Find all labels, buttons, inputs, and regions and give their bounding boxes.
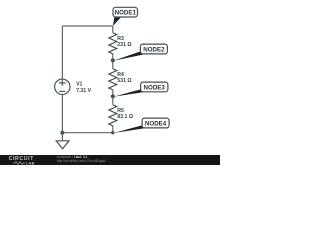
- svg-text:R5: R5: [117, 108, 124, 114]
- bar text line 1: [57, 156, 88, 159]
- svg-text:NODE1: NODE1: [115, 10, 137, 17]
- svg-text:531 Ω: 531 Ω: [117, 78, 131, 84]
- wire top horizontal: [62, 25, 112, 27]
- junction dot NODE4 corner: [111, 131, 114, 134]
- wire left upper: [61, 26, 63, 79]
- voltage source V1: [55, 79, 92, 94]
- node NODE2: [113, 44, 167, 61]
- svg-text:83.1 Ω: 83.1 Ω: [117, 114, 133, 120]
- wire bottom horizontal: [62, 132, 112, 134]
- svg-text:R4: R4: [117, 72, 124, 78]
- svg-text:NODE2: NODE2: [143, 47, 165, 54]
- CircuitLab logo LAB line: [13, 161, 37, 165]
- wire right column segments: [112, 26, 114, 133]
- svg-text:7.31 V: 7.31 V: [76, 88, 92, 94]
- junction dot NODE2: [111, 58, 115, 62]
- svg-text:LAB: LAB: [26, 162, 35, 166]
- node NODE1: [113, 7, 138, 26]
- svg-text:R3: R3: [117, 36, 124, 42]
- junction dot bottom-left: [60, 131, 64, 135]
- resistor R3: [109, 33, 132, 54]
- svg-text:NODE3: NODE3: [144, 85, 166, 92]
- svg-text:V1: V1: [76, 82, 82, 88]
- resistor R5: [109, 105, 133, 126]
- CircuitLab logo CIRCUIT: [9, 157, 34, 161]
- resistor R4: [109, 69, 132, 90]
- ground: [56, 133, 69, 149]
- node NODE3: [113, 82, 168, 97]
- svg-text:NODE4: NODE4: [145, 121, 167, 128]
- svg-text:231 Ω: 231 Ω: [117, 42, 131, 48]
- junction dot NODE3: [111, 94, 115, 98]
- wire left lower: [61, 95, 63, 133]
- node NODE4: [113, 118, 169, 133]
- bottom bar: [0, 155, 220, 165]
- bar text line 2: [57, 160, 106, 163]
